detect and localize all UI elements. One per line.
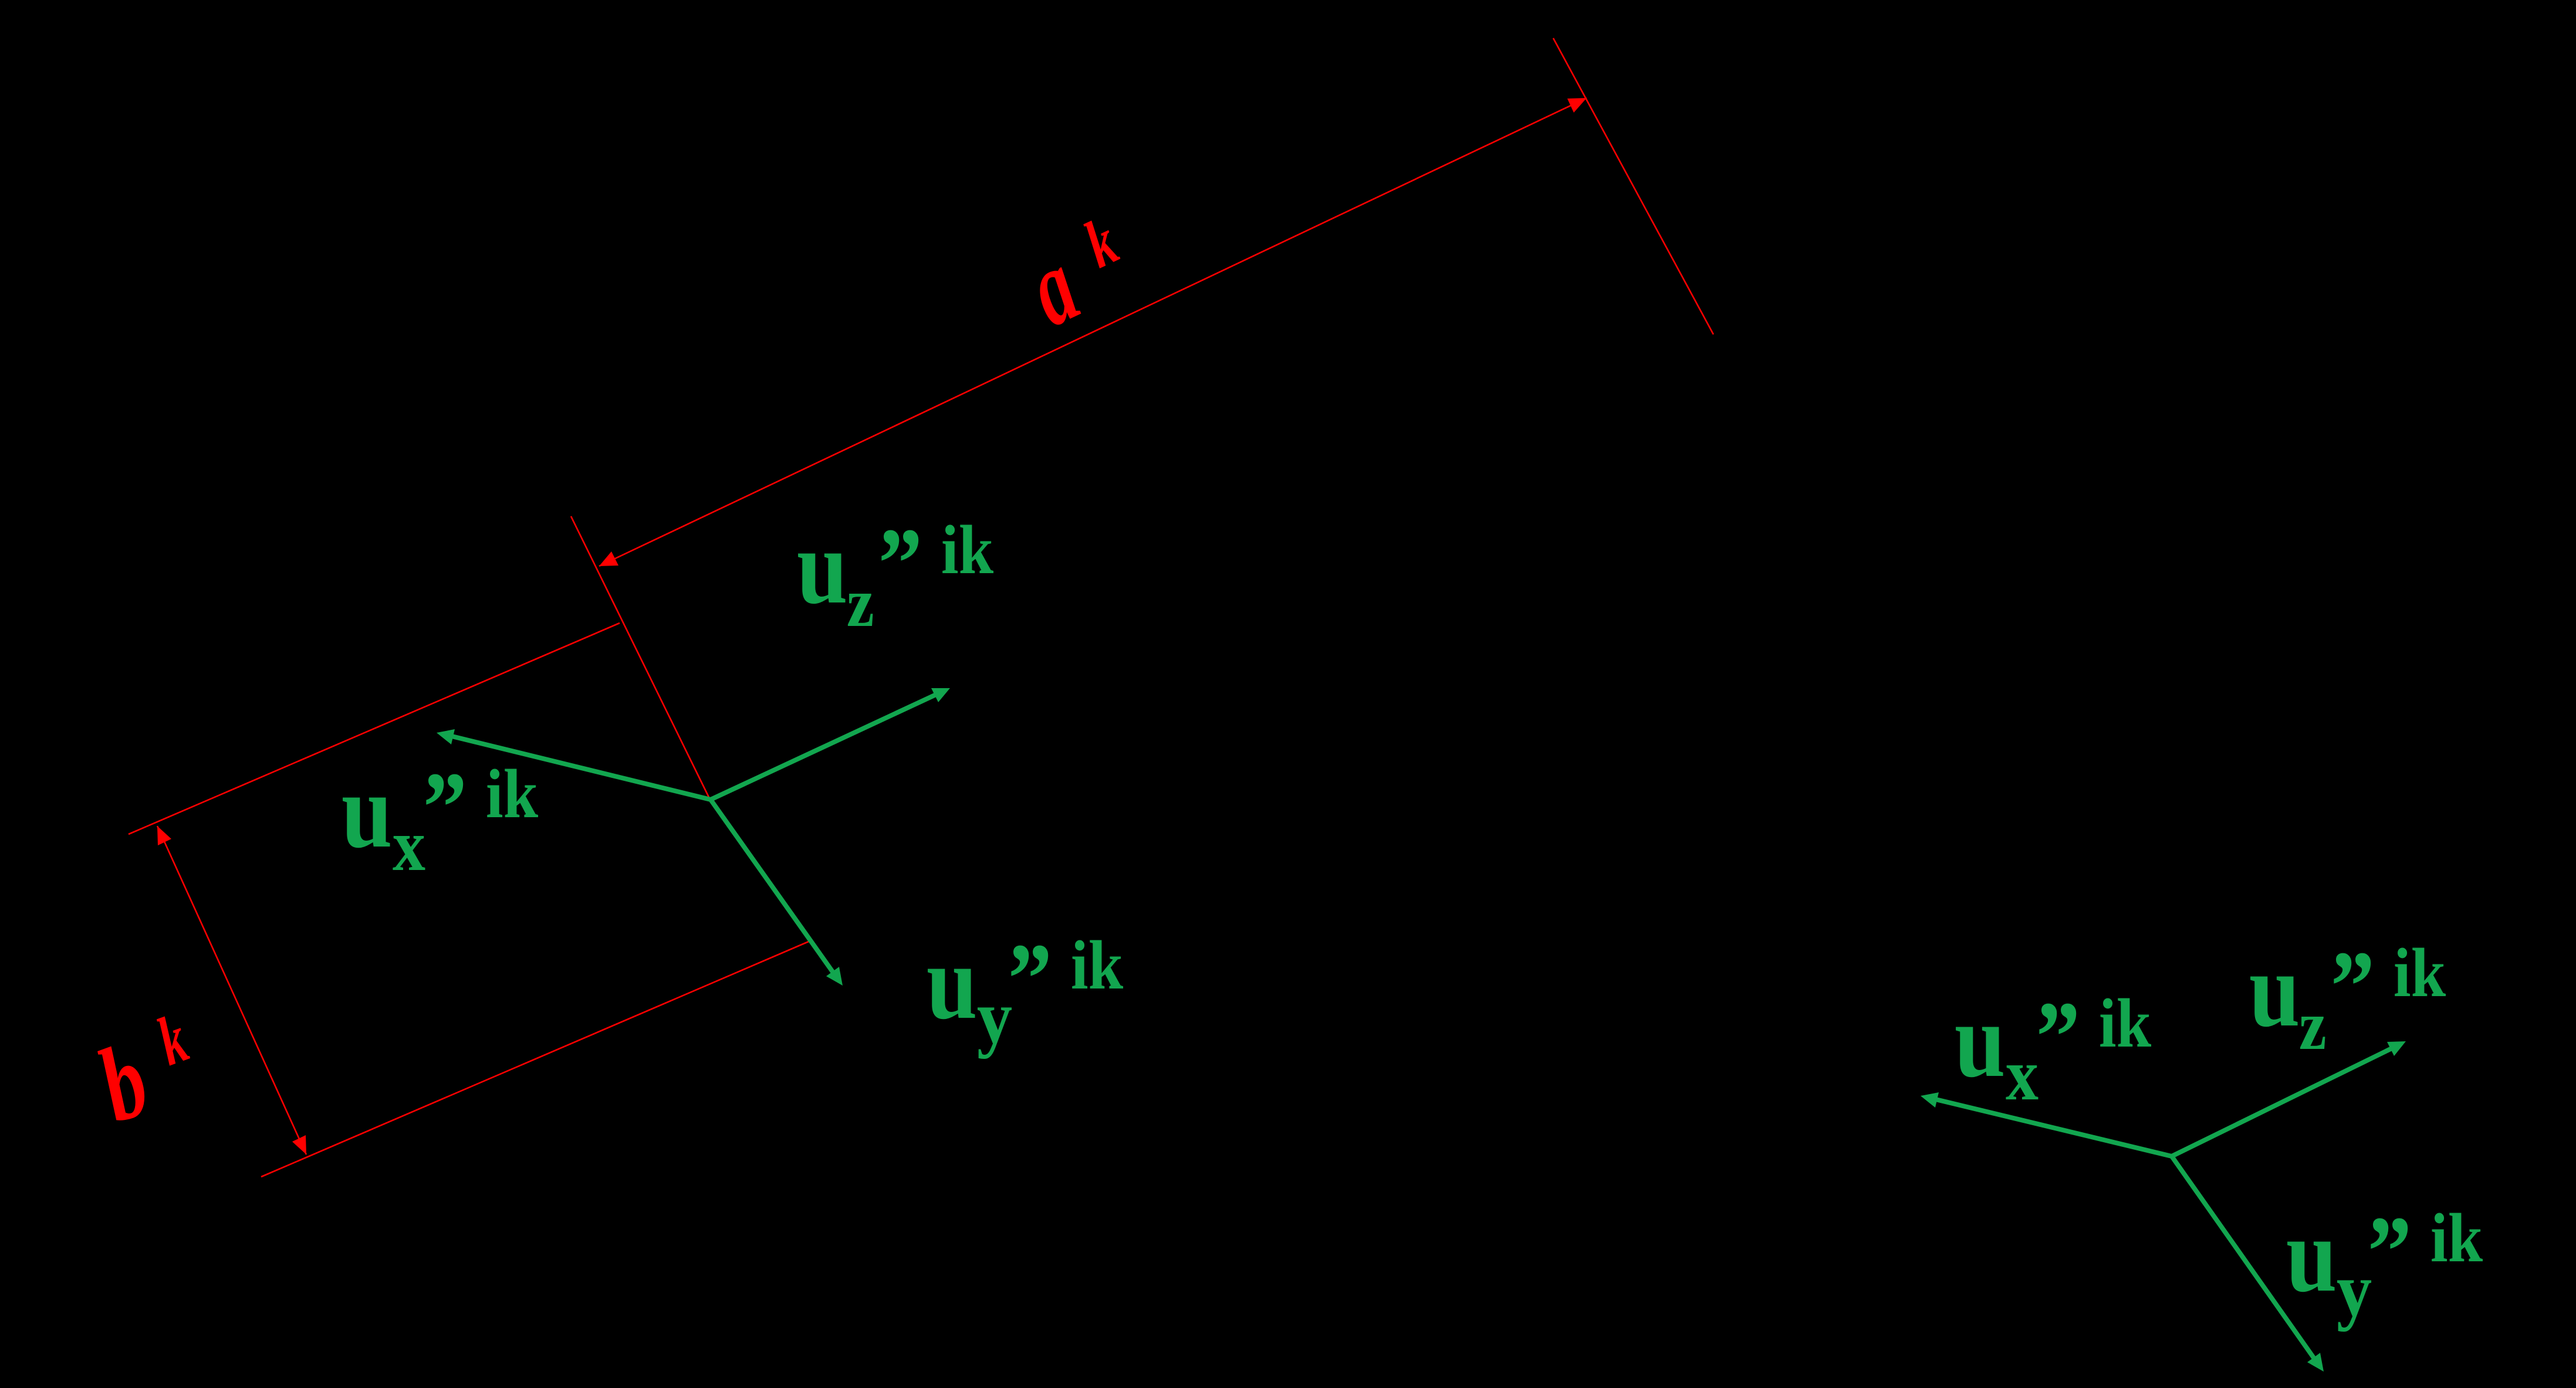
left triad label u_x'' ik [342, 751, 539, 886]
dimension b^k : top arrowhead [157, 826, 171, 845]
label a^k [1010, 225, 1094, 348]
left triad label u_y'' ik [927, 923, 1124, 1059]
svg-text:ik: ik [2394, 935, 2446, 1011]
dimension a^k : right extension line [1553, 38, 1713, 334]
left triad : u_x axis [452, 736, 711, 800]
svg-text:”: ” [1008, 923, 1052, 1035]
right triad : u_x arrowhead [1921, 1092, 1939, 1108]
svg-text:”: ” [2036, 981, 2080, 1093]
svg-text:u: u [1955, 981, 2006, 1099]
left triad : u_x arrowhead [437, 729, 455, 744]
right triad : u_x axis [1936, 1099, 2172, 1156]
svg-text:u: u [797, 507, 848, 626]
svg-text:ik: ik [486, 756, 538, 832]
dimension a^k : dimension line [599, 98, 1587, 566]
left triad : u_y arrowhead [826, 967, 843, 986]
right triad : u_z axis [2172, 1048, 2392, 1156]
svg-text:ik: ik [2099, 985, 2151, 1062]
svg-text:z: z [2299, 987, 2327, 1065]
svg-text:x: x [2006, 1034, 2039, 1115]
right triad label u_z'' ik [2249, 930, 2446, 1065]
svg-text:ik: ik [941, 512, 993, 588]
left triad : u_y axis [711, 800, 833, 973]
svg-text:”: ” [423, 751, 467, 864]
svg-text:”: ” [878, 507, 922, 619]
svg-text:u: u [2249, 930, 2300, 1049]
svg-text:u: u [2286, 1196, 2337, 1314]
svg-text:y: y [2337, 1248, 2372, 1332]
dimension a^k : left arrowhead [599, 551, 618, 566]
svg-text:z: z [847, 564, 874, 642]
dimension a^k : left extension line [571, 516, 709, 798]
svg-text:”: ” [2368, 1196, 2412, 1308]
svg-text:ik: ik [1071, 927, 1123, 1004]
right triad label u_y'' ik [2286, 1196, 2483, 1332]
dimension b^k : bottom extension line [261, 942, 809, 1177]
left triad label u_z'' ik [797, 507, 994, 642]
label b^k [84, 1020, 163, 1145]
dimension b^k : top extension line [129, 623, 620, 834]
right triad : u_z arrowhead [2387, 1041, 2406, 1056]
svg-text:u: u [927, 923, 978, 1041]
left triad : u_z axis [711, 695, 936, 800]
right triad label u_x'' ik [1955, 981, 2152, 1116]
left triad : u_z arrowhead [931, 688, 950, 702]
svg-text:x: x [393, 804, 425, 886]
svg-text:u: u [342, 751, 393, 870]
dimension b^k : bottom arrowhead [292, 1135, 306, 1155]
dimension b^k : dimension line [157, 826, 306, 1155]
right triad : u_y arrowhead [2307, 1353, 2324, 1372]
svg-text:ik: ik [2430, 1200, 2483, 1277]
right triad : u_y axis [2172, 1156, 2314, 1359]
dimension a^k : right arrowhead [1567, 98, 1587, 113]
svg-text:”: ” [2331, 930, 2375, 1042]
svg-text:y: y [977, 975, 1012, 1059]
